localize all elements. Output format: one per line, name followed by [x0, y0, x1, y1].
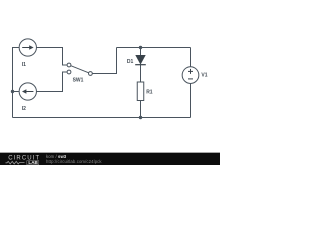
current source I2 — [19, 83, 36, 112]
junction dot at I2 / left rail — [11, 90, 14, 93]
wire from I1 to SW1 top throw — [36, 48, 67, 66]
wire I2 left pin — [13, 91, 20, 93]
switch SW1 — [67, 63, 92, 83]
junction dot bottom rail / R1 — [139, 116, 142, 119]
CircuitLab logo — [0, 152, 44, 165]
wire left rail — [13, 48, 20, 118]
wire V1 top — [190, 48, 192, 67]
wire D1 cathode to R1 — [140, 65, 142, 82]
wire V1 bottom — [190, 83, 192, 117]
resistor R1 — [137, 82, 153, 101]
wire bottom rail — [13, 117, 191, 119]
wire from SW1 bottom throw to I2 — [36, 72, 67, 92]
wire top rail — [117, 47, 191, 49]
footer text line 1 — [46, 154, 66, 159]
current source I1 — [19, 39, 36, 68]
wire D1 anode — [140, 48, 142, 56]
diode D1 — [127, 55, 146, 65]
voltage source V1 — [182, 67, 208, 84]
svg-text:V1: V1 — [201, 72, 207, 78]
svg-text:D1: D1 — [127, 59, 134, 65]
wire R1 to bottom rail — [140, 101, 142, 118]
svg-text:I2: I2 — [22, 106, 26, 112]
svg-text:LAB: LAB — [28, 160, 38, 165]
wire SW1 common to top rail — [92, 48, 116, 74]
footer text line 2 — [46, 159, 102, 164]
svg-text:SW1: SW1 — [73, 77, 84, 83]
svg-text:I1: I1 — [22, 62, 26, 68]
svg-text:R1: R1 — [146, 89, 153, 95]
junction dot top rail / D1 — [139, 46, 142, 49]
footer bar — [0, 152, 220, 165]
